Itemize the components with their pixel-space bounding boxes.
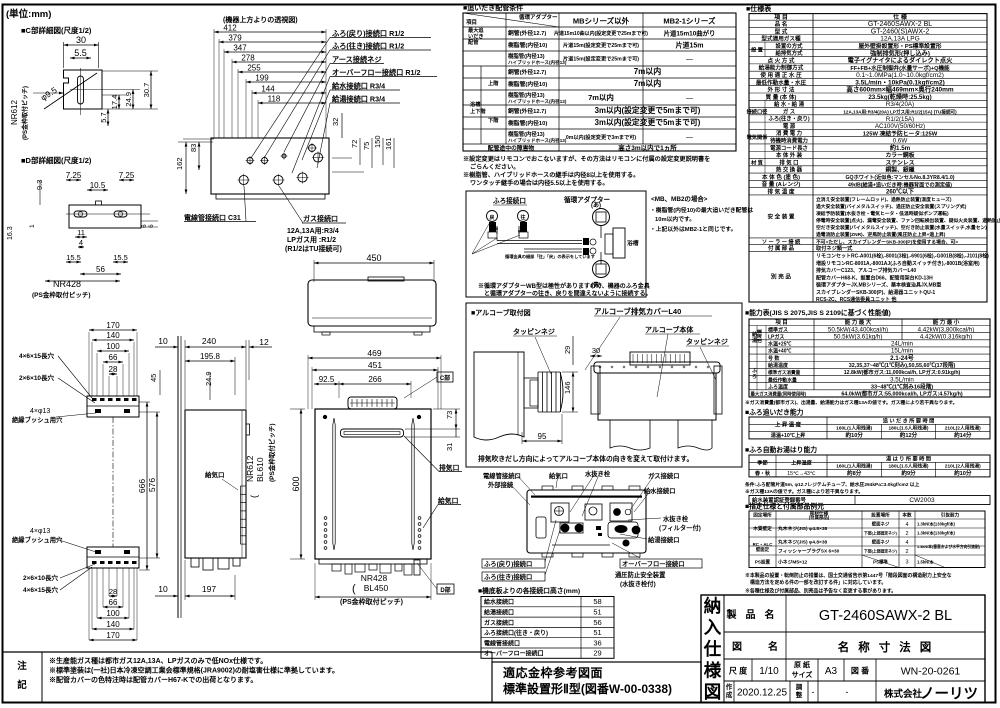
svg-text:・上記以外はMB2-1と同じです。: ・上記以外はMB2-1と同じです。 [650, 225, 736, 233]
svg-text:片道15m(設定変更で25mまで可): 片道15m(設定変更で25mまで可) [563, 41, 639, 49]
svg-text:設 置: 設 置 [751, 46, 763, 54]
svg-text:安 全 装 置: 安 全 装 置 [767, 212, 794, 220]
svg-text:BL450: BL450 [364, 583, 389, 593]
svg-text:(フィルター付): (フィルター付) [659, 523, 701, 532]
svg-text:A3: A3 [825, 666, 838, 677]
svg-text:12A,13A用:R3/4(20A) LPガス用:R1/2: 12A,13A用:R3/4(20A) LPガス用:R1/2(15A) (TU接続… [843, 109, 957, 116]
svg-text:給気口: 給気口 [438, 496, 459, 505]
svg-text:15.5: 15.5 [113, 253, 128, 262]
svg-text:樹脂管(内径10): 樹脂管(内径10) [508, 119, 547, 127]
svg-text:30.7: 30.7 [142, 83, 151, 98]
svg-text:給水接続口: 給水接続口 [644, 486, 675, 495]
svg-text:(PS金枠取付ピッチ): (PS金枠取付ピッチ) [340, 597, 403, 606]
svg-text:■アルコーブ取付図: ■アルコーブ取付図 [471, 308, 531, 317]
svg-text:樹脂管(内径10): 樹脂管(内径10) [508, 41, 547, 49]
svg-text:―: ― [686, 95, 693, 102]
svg-text:設置場所: 設置場所 [871, 512, 890, 519]
svg-text:GT-2460SAWX-2 BL: GT-2460SAWX-2 BL [819, 608, 952, 624]
svg-text:56: 56 [96, 265, 105, 274]
svg-text:66: 66 [109, 353, 118, 362]
svg-text:銅管(外径12.7): 銅管(外径12.7) [508, 107, 546, 115]
svg-text:266: 266 [368, 375, 382, 384]
svg-text:■仕様表: ■仕様表 [746, 4, 772, 13]
svg-text:スカイブレンダーSKB-300(P)、給湯器ユニットQU-1: スカイブレンダーSKB-300(P)、給湯器ユニットQU-1 [816, 289, 935, 296]
svg-text:FF+FB+水圧制御弁(水量サーボ)+Q機能: FF+FB+水圧制御弁(水量サーボ)+Q機能 [850, 64, 950, 72]
svg-text:100: 100 [106, 342, 120, 351]
svg-text:不可<ただし、スカイブレンダーSKB-300(P)を使用する: 不可<ただし、スカイブレンダーSKB-300(P)を使用する場合、可> [816, 238, 958, 245]
svg-text:壁面ネジ: 壁面ネジ [872, 539, 890, 546]
svg-text:給湯能力制御方式: 給湯能力制御方式 [759, 64, 804, 72]
svg-text:ガス接続口: ガス接続口 [303, 214, 338, 223]
svg-text:MBシリーズ以外: MBシリーズ以外 [573, 16, 630, 26]
svg-text:4×6×15長穴: 4×6×15長穴 [23, 585, 59, 594]
svg-text:ガス接続口: ガス接続口 [484, 619, 514, 627]
svg-text:31: 31 [445, 443, 454, 451]
svg-text:本数: 本数 [901, 512, 912, 519]
svg-text:146: 146 [563, 381, 572, 394]
svg-text:83: 83 [189, 144, 198, 152]
svg-text:尺 度: 尺 度 [729, 666, 748, 676]
svg-text:往: 往 [519, 214, 525, 221]
svg-text:銅製、銀鑞: 銅製、銀鑞 [886, 166, 915, 174]
svg-text:195.8: 195.8 [200, 352, 221, 361]
svg-text:項目: 項目 [466, 18, 477, 26]
svg-text:図: 図 [704, 682, 722, 702]
svg-text:NR428: NR428 [361, 573, 388, 583]
svg-text:電線管接続口: 電線管接続口 [483, 471, 521, 480]
svg-text:140: 140 [106, 620, 120, 629]
svg-text:循環アダプター: 循環アダプター [564, 195, 611, 204]
svg-text:ふろ温度: ふろ温度 [768, 383, 789, 390]
svg-text:C部: C部 [440, 374, 450, 382]
svg-text:10: 10 [158, 336, 168, 346]
svg-text:(PS金枠取付ピッチ): (PS金枠取付ピッチ) [32, 290, 91, 299]
svg-text:450: 450 [366, 253, 381, 263]
svg-text:2: 2 [905, 549, 908, 555]
svg-text:いだき: いだき [468, 32, 484, 40]
svg-text:※設定変更はリモコンでおこないますが、その方法はリモコンに付: ※設定変更はリモコンでおこないますが、その方法はリモコンに付属の設定変更説明書を [463, 155, 710, 163]
svg-text:10: 10 [158, 584, 168, 594]
svg-text:4: 4 [79, 238, 83, 247]
svg-text:約9分: 約9分 [901, 469, 916, 477]
svg-text:3.5L/min: 3.5L/min [890, 376, 914, 383]
svg-text:仕 様: 仕 様 [892, 13, 908, 21]
svg-text:銅管(外径12.7): 銅管(外径12.7) [508, 29, 546, 37]
svg-text:100: 100 [106, 609, 120, 618]
svg-text:入: 入 [704, 618, 722, 638]
svg-text:600: 600 [291, 476, 301, 491]
svg-text:24L/min: 24L/min [891, 341, 914, 348]
svg-text:壁面定: 壁面定 [756, 546, 770, 553]
svg-text:―: ― [686, 56, 693, 63]
svg-text:過電流防止装置(ZNR)、逆風防止装置(風圧防止上昇+過上昇: 過電流防止装置(ZNR)、逆風防止装置(風圧防止上昇+過上昇) [815, 231, 946, 238]
svg-text:33~48℃(1℃刻み16段階): 33~48℃(1℃刻み16段階) [871, 382, 933, 390]
svg-text:最大ガス消費量(同時使用時): 最大ガス消費量(同時使用時) [751, 391, 807, 398]
svg-text:51: 51 [593, 607, 601, 616]
svg-text:原 紙: 原 紙 [794, 660, 810, 669]
svg-text:停電時安全装置(点火)、漏電安全装置、ファン回転検出装置、疑: 停電時安全装置(点火)、漏電安全装置、ファン回転検出装置、疑似火炎装置、過熱防止… [816, 217, 1000, 224]
svg-text:1.3kN/本(垂直および水平方向引抜耐): 1.3kN/本(垂直および水平方向引抜耐) [917, 544, 981, 549]
svg-text:■能力表(JIS S 2075,JIS S 2109に基づく: ■能力表(JIS S 2075,JIS S 2109に基づく性能値) [745, 308, 891, 317]
svg-text:戻: 戻 [488, 214, 494, 221]
svg-text:1.3kN/本(130kgf/本): 1.3kN/本(130kgf/本) [917, 530, 956, 537]
svg-text:別 売 品: 別 売 品 [770, 273, 791, 281]
svg-text:号 数: 号 数 [768, 355, 780, 362]
svg-text:ノーリツ: ノーリツ [920, 687, 978, 703]
svg-text:12A,13A用:R3/4: 12A,13A用:R3/4 [287, 227, 339, 235]
svg-text:210L(2人用残湯): 210L(2人用残湯) [945, 463, 981, 470]
svg-text:(あ): (あ) [591, 201, 601, 209]
svg-text:フィッシャープラグSX 6×30: フィッシャープラグSX 6×30 [778, 548, 840, 555]
svg-text:電気関係: 電気関係 [747, 133, 769, 141]
svg-text:屋外壁掛設置形・PS標準設置形: 屋外壁掛設置形・PS標準設置形 [858, 42, 941, 50]
svg-text:451: 451 [368, 360, 382, 370]
svg-text:給排気方式: 給排気方式 [776, 49, 804, 57]
svg-text:浴槽: 浴槽 [627, 239, 639, 247]
svg-text:412: 412 [223, 24, 237, 33]
svg-text:過大安全装置(バイメタルスイッチ)、過圧防止安全装置(スプリ: 過大安全装置(バイメタルスイッチ)、過圧防止安全装置(スプリング式) [815, 203, 967, 210]
svg-text:(PS金枠取付ピッチ): (PS金枠取付ピッチ) [267, 424, 276, 483]
svg-text:上下階: 上下階 [470, 107, 486, 115]
svg-text:150: 150 [373, 135, 382, 148]
svg-text:排気吹きだし方向によってアルコーブ本体の向きを変えて取付けま: 排気吹きだし方向によってアルコーブ本体の向きを変えて取付けます。 [478, 454, 693, 463]
svg-text:3.5L/min・10kPa(0.1kgf/cm2): 3.5L/min・10kPa(0.1kgf/cm2) [855, 79, 945, 86]
svg-text:樹脂管(内径13): 樹脂管(内径13) [508, 52, 545, 60]
svg-text:15℃→43℃: 15℃→43℃ [787, 471, 816, 477]
svg-text:約14分: 約14分 [954, 431, 972, 439]
svg-text:32,35,37~48℃(1℃刻み),50,55,60℃(1: 32,35,37~48℃(1℃刻み),50,55,60℃(17段階) [849, 361, 956, 369]
svg-text:名称寸法図: 名称寸法図 [838, 640, 941, 654]
svg-text:45: 45 [149, 374, 158, 382]
svg-text:・樹脂管(内径10)の最大追いだき配管は: ・樹脂管(内径10)の最大追いだき配管は [650, 206, 753, 214]
svg-text:49dB(給湯+追いだき時:機器背面での測定値): 49dB(給湯+追いだき時:機器背面での測定値) [848, 180, 952, 188]
svg-text:5.7: 5.7 [99, 112, 108, 122]
svg-text:0.6W: 0.6W [893, 138, 908, 145]
svg-text:■追いだき配管条件: ■追いだき配管条件 [463, 3, 523, 12]
svg-text:255: 255 [247, 64, 261, 73]
svg-text:LPガス: LPガス [768, 333, 784, 340]
svg-text:排 気 温 度: 排 気 温 度 [767, 187, 794, 195]
svg-text:50.5kW(43,400kcal/h): 50.5kW(43,400kcal/h) [828, 326, 888, 333]
svg-text:約12分: 約12分 [900, 431, 918, 439]
svg-text:外部接続: 外部接続 [488, 480, 514, 489]
svg-text:作: 作 [726, 682, 733, 691]
svg-text:-: - [812, 687, 815, 697]
svg-text:銅管(外径12.7): 銅管(外径12.7) [508, 68, 546, 76]
svg-text:95: 95 [538, 432, 547, 441]
svg-text:給湯接続口: 給湯接続口 [648, 535, 679, 544]
svg-text:丸木ネジ(JIS) φ4.8×38: 丸木ネジ(JIS) φ4.8×38 [777, 539, 827, 546]
svg-text:51: 51 [593, 628, 601, 637]
svg-text:7.25: 7.25 [119, 171, 135, 180]
svg-text:2×6×10長穴: 2×6×10長穴 [19, 373, 55, 382]
svg-text:給湯接続口: 給湯接続口 [484, 608, 514, 616]
svg-text:循環金具の細部「往」「戻」の表示をしています: 循環金具の細部「往」「戻」の表示をしています [505, 253, 595, 260]
svg-text:66: 66 [109, 598, 118, 607]
svg-text:給湯接続口 R3/4: 給湯接続口 R3/4 [332, 95, 385, 104]
svg-text:64.0kW(都市ガス:55,000kcal/h, LPガス: 64.0kW(都市ガス:55,000kcal/h, LPガス:4.57kg/h) [841, 390, 963, 398]
svg-text:オーバーフロー接続口: オーバーフロー接続口 [484, 650, 544, 658]
svg-text:最低作動水量・水圧: 最低作動水量・水圧 [756, 78, 807, 86]
svg-text:電 源: 電 源 [783, 122, 796, 130]
svg-text:上昇温度: 上昇温度 [791, 458, 813, 466]
svg-text:配管: 配管 [468, 38, 478, 46]
svg-text:項 目: 項 目 [775, 318, 788, 326]
svg-text:排 気 口: 排 気 口 [779, 158, 798, 166]
svg-text:アルコーブ排気カバーL40: アルコーブ排気カバーL40 [594, 306, 681, 316]
svg-text:■機底板よりの各接続口高さ(mm): ■機底板よりの各接続口高さ(mm) [478, 586, 580, 595]
svg-text:ハイブリッドホース(内径13): ハイブリッドホース(内径13) [508, 98, 567, 105]
svg-text:下階: 下階 [488, 116, 499, 124]
svg-text:※ガス消費量(都市ガス)、出湯量、給湯能力はガス種13Aの値: ※ガス消費量(都市ガス)、出湯量、給湯能力はガス種13Aの値です。ガス種により若… [745, 399, 957, 406]
svg-text:NR612: NR612 [245, 455, 255, 482]
svg-text:浴槽: 浴槽 [470, 100, 481, 108]
svg-text:ごらんください。: ごらんください。 [470, 163, 520, 171]
svg-text:■ふろ追いだき能力: ■ふろ追いだき能力 [745, 408, 804, 417]
svg-text:36: 36 [593, 638, 601, 647]
svg-text:28: 28 [109, 587, 117, 596]
svg-text:上 昇 温 度: 上 昇 温 度 [775, 420, 802, 428]
svg-text:給 水・給 湯: 給 水・給 湯 [774, 100, 805, 108]
svg-text:能 力 最 大: 能 力 最 大 [845, 318, 872, 326]
svg-text:電線管接続口: 電線管接続口 [484, 639, 520, 647]
svg-text:<MB、MB2の場合>: <MB、MB2の場合> [651, 194, 708, 203]
svg-text:立消え安全装置(フレームロッド)、過熱防止装置(温度ヒューズ: 立消え安全装置(フレームロッド)、過熱防止装置(温度ヒューズ) [816, 196, 952, 203]
svg-text:(: ( [249, 495, 259, 498]
svg-text:水温+40℃: 水温+40℃ [767, 348, 791, 355]
svg-text:湯 は り 所 要 時 間: 湯 は り 所 要 時 間 [886, 454, 931, 462]
svg-text:点 火 方 式: 点 火 方 式 [767, 56, 794, 64]
svg-text:※循環アダプターWB型は極性がありますので、機器のふろ金具: ※循環アダプターWB型は極性がありますので、機器のふろ金具 [478, 282, 650, 290]
svg-text:2: 2 [905, 531, 908, 537]
svg-text:15L/min: 15L/min [891, 348, 914, 355]
svg-text:10.5: 10.5 [90, 181, 106, 190]
svg-text:144: 144 [261, 85, 275, 94]
svg-text:4.42kW(0.316kg/h): 4.42kW(0.316kg/h) [920, 333, 972, 340]
svg-text:3m以内(設定変更で5mまで可): 3m以内(設定変更で5mまで可) [595, 117, 701, 127]
svg-text:増設リモコンRC-8001A,-8001AJ(ふろ自動スイッ: 増設リモコンRC-8001A,-8001AJ(ふろ自動スイッチ付き),-8001… [816, 260, 980, 267]
svg-text:サイズ: サイズ [792, 670, 813, 679]
svg-text:7m以内: 7m以内 [634, 66, 662, 76]
svg-text:型式適用ガス種: 型式適用ガス種 [761, 35, 801, 43]
svg-text:278: 278 [241, 54, 255, 63]
svg-text:160L(1人用残湯): 160L(1人用残湯) [836, 463, 872, 470]
svg-text:240: 240 [202, 336, 216, 346]
svg-text:12A,13A LPG: 12A,13A LPG [880, 36, 919, 43]
svg-text:■指定仕様と付属部品例元: ■指定仕様と付属部品例元 [745, 502, 824, 511]
svg-text:最低作動水量: 最低作動水量 [768, 376, 797, 383]
svg-text:3: 3 [905, 560, 908, 566]
svg-text:ふろ接続口: ふろ接続口 [493, 196, 526, 205]
svg-text:春・秋: 春・秋 [755, 470, 771, 477]
svg-text:設置の方式: 設置の方式 [776, 42, 804, 50]
svg-text:最大追: 最大追 [468, 26, 484, 34]
svg-text:PS設置: PS設置 [755, 558, 771, 565]
svg-text:凍結予防装置(水抜き栓・電気ヒータ・低温時疑似ポンプ運転): 凍結予防装置(水抜き栓・電気ヒータ・低温時疑似ポンプ運転) [816, 210, 949, 217]
svg-text:-: - [846, 687, 849, 697]
svg-text:50.5kW(3.61kg/h): 50.5kW(3.61kg/h) [834, 333, 883, 340]
svg-text:排気口: 排気口 [439, 463, 460, 472]
svg-text:MB2-1シリーズ: MB2-1シリーズ [663, 16, 716, 26]
svg-text:強制排気形(押し込み): 強制排気形(押し込み) [870, 49, 930, 57]
svg-text:260℃以下: 260℃以下 [886, 188, 914, 196]
svg-text:アルコーブ本体: アルコーブ本体 [645, 325, 694, 334]
svg-text:75: 75 [362, 142, 371, 150]
svg-text:(単位:mm): (単位:mm) [6, 8, 51, 20]
svg-text:約8分: 約8分 [847, 469, 862, 477]
svg-text:タッピンネジ: タッピンネジ [513, 327, 555, 336]
svg-text:オーバーフロー接続口: オーバーフロー接続口 [622, 559, 685, 568]
svg-text:条件:ふろ配管片道5m, φ12.7レジテムチューブ、給水圧: 条件:ふろ配管片道5m, φ12.7レジテムチューブ、給水圧294kPa=3.0… [744, 481, 920, 488]
svg-text:取付ネジ類一式: 取付ネジ類一式 [816, 244, 853, 252]
svg-text:5.5: 5.5 [74, 48, 87, 58]
svg-text:下部(上部固定ネジ): 下部(上部固定ネジ) [864, 549, 898, 554]
svg-text:4×φ13: 4×φ13 [30, 528, 50, 535]
svg-text:φ9.5: φ9.5 [39, 85, 59, 103]
svg-text:図: 図 [732, 641, 742, 653]
svg-text:品 名: 品 名 [775, 20, 788, 28]
svg-text:RCS-2C、RCS通信委員ユニット 他: RCS-2C、RCS通信委員ユニット 他 [816, 296, 897, 303]
svg-text:※樹脂管、ハイブリッドホースの継手は内径8以上を使用する。: ※樹脂管、ハイブリッドホースの継手は内径8以上を使用する。 [463, 171, 639, 179]
svg-text:56: 56 [593, 618, 601, 627]
svg-text:樹脂管(内径13): 樹脂管(内径13) [508, 91, 545, 99]
svg-text:オーバーフロー接続口 R1/2: オーバーフロー接続口 R1/2 [332, 68, 421, 77]
svg-text:仕: 仕 [703, 639, 722, 659]
svg-text:ふろ(往き)接続口: ふろ(往き)接続口 [484, 572, 532, 581]
svg-text:0m以内(設定変更で3mまで可): 0m以内(設定変更で3mまで可) [566, 133, 637, 141]
svg-text:※本製品の設置・転倒防止の措置は、国土交通省告示第1447号: ※本製品の設置・転倒防止の措置は、国土交通省告示第1447号「階段図面の構造耐力… [745, 572, 952, 579]
svg-text:16.3: 16.3 [7, 226, 14, 240]
svg-text:空だき安全装置(バイメタルスイッチ)、空だき防止装置(水量ス: 空だき安全装置(バイメタルスイッチ)、空だき防止装置(水量スイッチ,水量セン) [816, 224, 987, 231]
svg-text:株式会社: 株式会社 [884, 688, 923, 700]
svg-text:WN-20-0261: WN-20-0261 [901, 666, 961, 678]
svg-text:小ネジM5×12: 小ネジM5×12 [777, 558, 808, 565]
svg-text:0.1~1.0MPa(1.0~10.0kgf/cm2): 0.1~1.0MPa(1.0~10.0kgf/cm2) [856, 72, 944, 79]
svg-text:タッピンネジ: タッピンネジ [686, 337, 728, 346]
svg-text:2×6×10長穴: 2×6×10長穴 [23, 573, 59, 582]
svg-text:■C部詳細図(尺度1/2): ■C部詳細図(尺度1/2) [21, 25, 92, 35]
svg-text:30: 30 [76, 35, 86, 45]
svg-text:ふろ接続口(往き・戻り): ふろ接続口(往き・戻り) [484, 629, 548, 637]
svg-text:(R1/2はTU接続可): (R1/2はTU接続可) [285, 244, 342, 253]
svg-text:210L(2人用残湯): 210L(2人用残湯) [945, 425, 981, 432]
svg-text:絶縁ブッシュ用穴: 絶縁ブッシュ用穴 [12, 415, 63, 424]
svg-text:R3/4(20A): R3/4(20A) [886, 101, 914, 108]
svg-text:(付属部品): (付属部品) [809, 514, 830, 521]
svg-text:6: 6 [148, 224, 155, 228]
svg-text:AC100V(50/60Hz): AC100V(50/60Hz) [875, 123, 925, 130]
svg-text:ハイブリッドホース(内径13): ハイブリッドホース(内径13) [508, 137, 567, 144]
svg-text:壁面ネジ: 壁面ネジ [872, 521, 890, 528]
svg-text:1.3kN/本(130kgf/本): 1.3kN/本(130kgf/本) [917, 521, 956, 528]
svg-text:高さ600mm×幅469mm×奥行240mm: 高さ600mm×幅469mm×奥行240mm [846, 85, 954, 94]
svg-text:(: ( [352, 583, 356, 595]
svg-text:追 い だ き 所 要 時 間: 追 い だ き 所 要 時 間 [883, 416, 935, 424]
svg-text:標準設置形Ⅱ型(図番W-00-0338): 標準設置形Ⅱ型(図番W-00-0338) [503, 681, 672, 696]
svg-text:(水抜き栓付): (水抜き栓付) [620, 579, 656, 588]
svg-text:ソ ー ラ ー 接 続: ソ ー ラ ー 接 続 [762, 237, 801, 245]
svg-text:木質壁定: 木質壁定 [752, 525, 772, 532]
svg-text:17.4: 17.4 [110, 95, 119, 110]
svg-text:給水接続口: 給水接続口 [484, 598, 514, 606]
svg-text:162: 162 [175, 157, 184, 170]
svg-text:9.3: 9.3 [35, 180, 44, 190]
svg-text:調: 調 [796, 682, 803, 691]
svg-text:LPガス用 :R1/2: LPガス用 :R1/2 [287, 235, 336, 244]
svg-text:循環アダプター: 循環アダプター [519, 13, 558, 21]
svg-text:材 質: 材 質 [750, 158, 764, 166]
svg-text:※標準塗装は(一社)日本冷凍空調工業会標準規格(JRA900: ※標準塗装は(一社)日本冷凍空調工業会標準規格(JRA9002)の耐塩害仕様に準… [49, 666, 339, 675]
svg-text:下部(上部固定ネジ): 下部(上部固定ネジ) [864, 531, 898, 536]
svg-text:7m以内: 7m以内 [634, 78, 662, 88]
svg-text:片道15m10曲以内(設定変更で25mまで可): 片道15m10曲以内(設定変更で25mまで可) [554, 30, 648, 37]
svg-text:4×φ13: 4×φ13 [30, 408, 50, 415]
svg-text:2.1-24号: 2.1-24号 [890, 354, 914, 362]
svg-text:180L(1.5人用残湯): 180L(1.5人用残湯) [888, 425, 928, 432]
svg-text:161: 161 [384, 137, 393, 150]
svg-text:92.5: 92.5 [319, 375, 335, 384]
svg-text:4: 4 [905, 540, 908, 546]
svg-text:樹脂管(内径10): 樹脂管(内径10) [508, 80, 547, 88]
svg-text:循環アダプターJX,MBシリーズ、薬本検査治具JX,MB型: 循環アダプターJX,MBシリーズ、薬本検査治具JX,MB型 [816, 282, 941, 289]
svg-text:379: 379 [228, 34, 242, 43]
svg-text:給気口: 給気口 [549, 471, 568, 480]
svg-text:GT-2460SAWX-2 BL: GT-2460SAWX-2 BL [868, 21, 932, 28]
svg-text:4: 4 [905, 522, 908, 528]
svg-text:と循環アダプターの往き、戻りを間違えないように接続する。: と循環アダプターの往き、戻りを間違えないように接続する。 [484, 290, 651, 298]
svg-text:引抜耐力: 引抜耐力 [941, 512, 960, 519]
svg-text:666: 666 [137, 479, 147, 493]
svg-text:576: 576 [147, 478, 157, 492]
svg-text:ろ: ろ [752, 374, 757, 380]
svg-text:電源コード長さ: 電源コード長さ [770, 144, 808, 152]
svg-text:本 体 色 (塗 色): 本 体 色 (塗 色) [762, 173, 800, 181]
svg-text:NR612: NR612 [10, 100, 19, 125]
svg-text:構造方法を定める件の一部を改訂する件」に対応しています。: 構造方法を定める件の一部を改訂する件」に対応しています。 [750, 579, 886, 586]
svg-text:給湯温度: 給湯温度 [768, 362, 789, 369]
svg-text:注: 注 [17, 660, 27, 672]
svg-text:30: 30 [592, 346, 600, 355]
svg-text:季節: 季節 [757, 458, 768, 466]
svg-text:28: 28 [109, 365, 118, 374]
svg-text:電線管接続口 C31: 電線管接続口 C31 [184, 213, 241, 222]
svg-text:標準ガス: 標準ガス [768, 326, 788, 333]
svg-text:様: 様 [704, 661, 722, 681]
svg-text:丸木ネジ(JIS) φ4.8×38: 丸木ネジ(JIS) φ4.8×38 [777, 525, 827, 532]
svg-text:図 番: 図 番 [851, 666, 870, 676]
svg-text:※ガス種13Aの値です。ガス種により若干異なります。: ※ガス種13Aの値です。ガス種により若干異なります。 [745, 488, 863, 495]
svg-text:固定場所: 固定場所 [753, 512, 772, 519]
svg-text:製品名: 製品名 [726, 608, 784, 621]
svg-text:名: 名 [768, 640, 778, 653]
svg-text:標準ガス消費量: 標準ガス消費量 [768, 369, 801, 376]
svg-text:29: 29 [593, 649, 601, 658]
svg-text:成: 成 [726, 690, 733, 699]
svg-text:469: 469 [367, 348, 381, 358]
svg-text:15.5: 15.5 [66, 253, 81, 262]
svg-text:水抜き栓: 水抜き栓 [663, 514, 689, 523]
svg-text:上階: 上階 [488, 79, 499, 87]
svg-text:NR428: NR428 [53, 279, 81, 289]
svg-text:適応金枠参考図面: 適応金枠参考図面 [503, 665, 603, 680]
svg-text:11: 11 [77, 228, 85, 237]
svg-text:29: 29 [563, 346, 572, 354]
svg-text:ハイブリッドホース(内径13): ハイブリッドホース(内径13) [508, 59, 567, 66]
svg-text:本 体 外 装: 本 体 外 装 [776, 151, 803, 159]
svg-text:ふろ(戻り)接続口 R1/2: ふろ(戻り)接続口 R1/2 [332, 29, 404, 38]
svg-text:72: 72 [350, 140, 359, 148]
svg-text:※配管カバーの色特注時は配管カバーH67-Kでの出荷となりま: ※配管カバーの色特注時は配管カバーH67-Kでの出荷となります。 [49, 675, 257, 684]
